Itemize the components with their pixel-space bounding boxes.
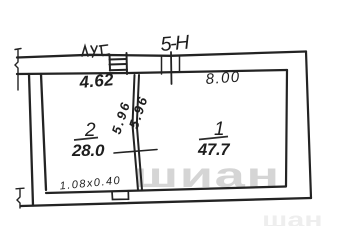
partition tick center [170, 52, 173, 84]
wire right wall outer line [306, 52, 311, 199]
wire top wall outer line [17, 52, 306, 58]
wire left wall outer line [29, 74, 33, 206]
niche 1.08x0.40 [112, 191, 129, 200]
wire middle partition right line [137, 75, 142, 190]
svg-text:4.62: 4.62 [78, 70, 115, 92]
svg-text:28.0: 28.0 [71, 141, 105, 160]
vent shaft box bottom [110, 69, 127, 72]
watermark [133, 156, 323, 232]
node left ledge tick [15, 49, 21, 91]
vent shaft hatch line 1 [110, 58, 127, 61]
svg-text:5.96: 5.96 [109, 100, 133, 136]
dimension tick across partition [114, 150, 157, 154]
svg-text:1.08х0.40: 1.08х0.40 [59, 175, 121, 193]
svg-text:шан: шан [262, 208, 323, 226]
wire left wall inner line [41, 74, 46, 190]
vent shaft hatch line 2 [110, 63, 127, 66]
svg-text:8.00: 8.00 [205, 69, 240, 88]
room 1 underline [199, 137, 228, 140]
vent shaft box left edge [109, 55, 112, 71]
svg-text:47.7: 47.7 [197, 141, 230, 159]
wire bottom wall outer line [21, 198, 311, 206]
partition tick right [179, 57, 181, 73]
room 2 underline [74, 138, 98, 141]
vent shaft box right edge [126, 53, 129, 74]
wire middle partition left line [133, 75, 139, 190]
wire bottom wall inner line [46, 187, 286, 194]
wire right wall inner line [286, 70, 287, 186]
svg-text:5-Н: 5-Н [160, 31, 191, 55]
wire top wall inner line [17, 70, 287, 74]
scribble annotation above top wall [82, 45, 109, 57]
partition tick left [161, 57, 163, 74]
node bottom left ledge tick [16, 188, 24, 208]
